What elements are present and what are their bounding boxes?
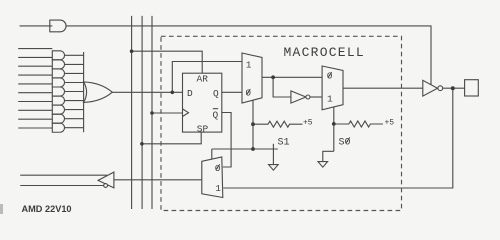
svg-text:AR: AR	[197, 74, 209, 85]
buffer U6 bubble	[438, 86, 443, 91]
junction dot S1 net	[251, 147, 255, 151]
wire OE product-term input	[20, 25, 53, 27]
wire input/feedback bus line 1	[131, 16, 133, 209]
wire PT8 output	[65, 118, 84, 120]
I/O pad	[465, 80, 479, 96]
AND gate PT9	[52, 123, 64, 132]
wire true feedback into array	[20, 174, 107, 176]
AND gate PT1	[52, 51, 64, 60]
scan smudge bottom left	[0, 204, 3, 214]
wire PT2 output	[65, 63, 84, 65]
svg-text:AMD 22V10: AMD 22V10	[22, 204, 72, 214]
AND gate PT5	[52, 87, 64, 96]
wire complement feedback into array	[20, 185, 103, 187]
wire mux2 output to tri-state buffer	[343, 87, 423, 89]
ground S0 fuse	[318, 162, 328, 168]
AND gate PT6	[52, 96, 64, 105]
AND gate PT3	[52, 69, 64, 78]
wire branch down to polarity inverter	[273, 77, 291, 97]
junction dot mux1 output branch	[271, 75, 275, 79]
inverter U4 (polarity)	[291, 91, 306, 103]
mux U5 (output polarity mux)	[322, 66, 343, 110]
junction dot S0 resistor	[332, 122, 336, 126]
wire PT9 output	[65, 127, 84, 129]
wire PT3 output	[65, 72, 84, 74]
wire input/feedback bus line 2	[141, 16, 143, 209]
buffer U8 complement bubble	[104, 184, 108, 188]
wire AR (async reset) from bus line 1	[132, 51, 203, 73]
wire output feedback	[223, 88, 452, 188]
label fbmux pin 0 slash	[216, 164, 220, 170]
wire combinational bypass to mux1 input 1	[172, 62, 242, 93]
junction dot D/bypass branch	[171, 91, 175, 95]
junction dot S1 resistor	[251, 122, 255, 126]
ground S1 fuse	[269, 165, 279, 171]
wire mux1 output	[262, 76, 322, 78]
wire PT6 output	[65, 100, 84, 102]
wire select to feedback mux	[211, 149, 213, 159]
junction dot SP on bus 2	[140, 142, 144, 146]
wire clock from bus line 3	[152, 112, 183, 114]
label Qbar overline	[213, 108, 218, 110]
wire OE output to tri-state enable	[66, 26, 432, 85]
wire SP (sync preset) from bus line 2	[142, 132, 201, 144]
svg-text:+5: +5	[303, 119, 313, 128]
AND gate PT4	[52, 78, 64, 87]
inverter U4 bubble	[306, 95, 310, 99]
svg-text:D: D	[187, 88, 193, 99]
wire product term bus vertical	[83, 52, 85, 132]
flip-flop clock input triangle	[183, 109, 189, 117]
wire PT7 output	[65, 109, 84, 111]
AND gate PT8	[52, 114, 64, 123]
flip-flop U1 (D register)	[183, 73, 222, 132]
wire mux1 select S1	[252, 100, 254, 149]
AND gate OE (top left)	[50, 20, 66, 32]
label S0 slash	[346, 137, 350, 143]
wire mux2 select S0	[333, 107, 335, 151]
svg-text:1: 1	[327, 93, 333, 104]
label mux2 pin 0 slash	[328, 72, 332, 78]
resistor R2 pull-up	[334, 121, 383, 127]
wire buffer to I/O pad	[443, 87, 465, 89]
wire input/feedback bus line 3	[151, 16, 153, 209]
macrocell dashed boundary	[161, 36, 402, 210]
wire PT5 output	[65, 91, 84, 93]
junction dot AR on bus 1	[130, 49, 134, 53]
input buffer U8	[98, 172, 114, 188]
mux U7 (feedback select mux)	[202, 157, 223, 198]
OR gate (sum of products)	[84, 82, 113, 103]
wire PT4 output	[65, 82, 84, 84]
svg-text:+5: +5	[385, 119, 395, 128]
junction dot clock on bus 3	[150, 111, 154, 115]
wire Q output to mux1 input 0	[222, 91, 242, 93]
wire S0 to ground	[323, 151, 334, 161]
AND array input lines (10 product term inputs)	[18, 48, 52, 50]
AND gate PT7	[52, 105, 64, 114]
wire PT1 output	[65, 54, 84, 56]
tri-state output buffer U6	[423, 80, 438, 96]
svg-text:1: 1	[215, 183, 221, 194]
wire feedback mux output to input buffer	[114, 179, 202, 181]
wire S1 fuse stub	[272, 144, 274, 165]
svg-text:MACROCELL: MACROCELL	[284, 45, 365, 60]
svg-text:Q: Q	[213, 109, 219, 120]
wire Qbar output to feedback mux	[222, 113, 231, 168]
junction dot output node	[451, 86, 455, 90]
wire S1 net horizontal	[212, 148, 278, 150]
wire OR output to D input	[112, 91, 182, 93]
svg-text:SP: SP	[197, 123, 209, 134]
svg-text:1: 1	[246, 60, 252, 71]
resistor R1 pull-up	[253, 121, 303, 127]
mux U3 (register bypass mux)	[242, 53, 262, 103]
svg-text:Q: Q	[213, 88, 219, 99]
AND gate PT2	[52, 60, 64, 69]
label mux1 pin 0 slash	[247, 89, 251, 95]
svg-text:S1: S1	[278, 137, 290, 148]
wire inverter to mux2 input 1	[310, 96, 322, 98]
